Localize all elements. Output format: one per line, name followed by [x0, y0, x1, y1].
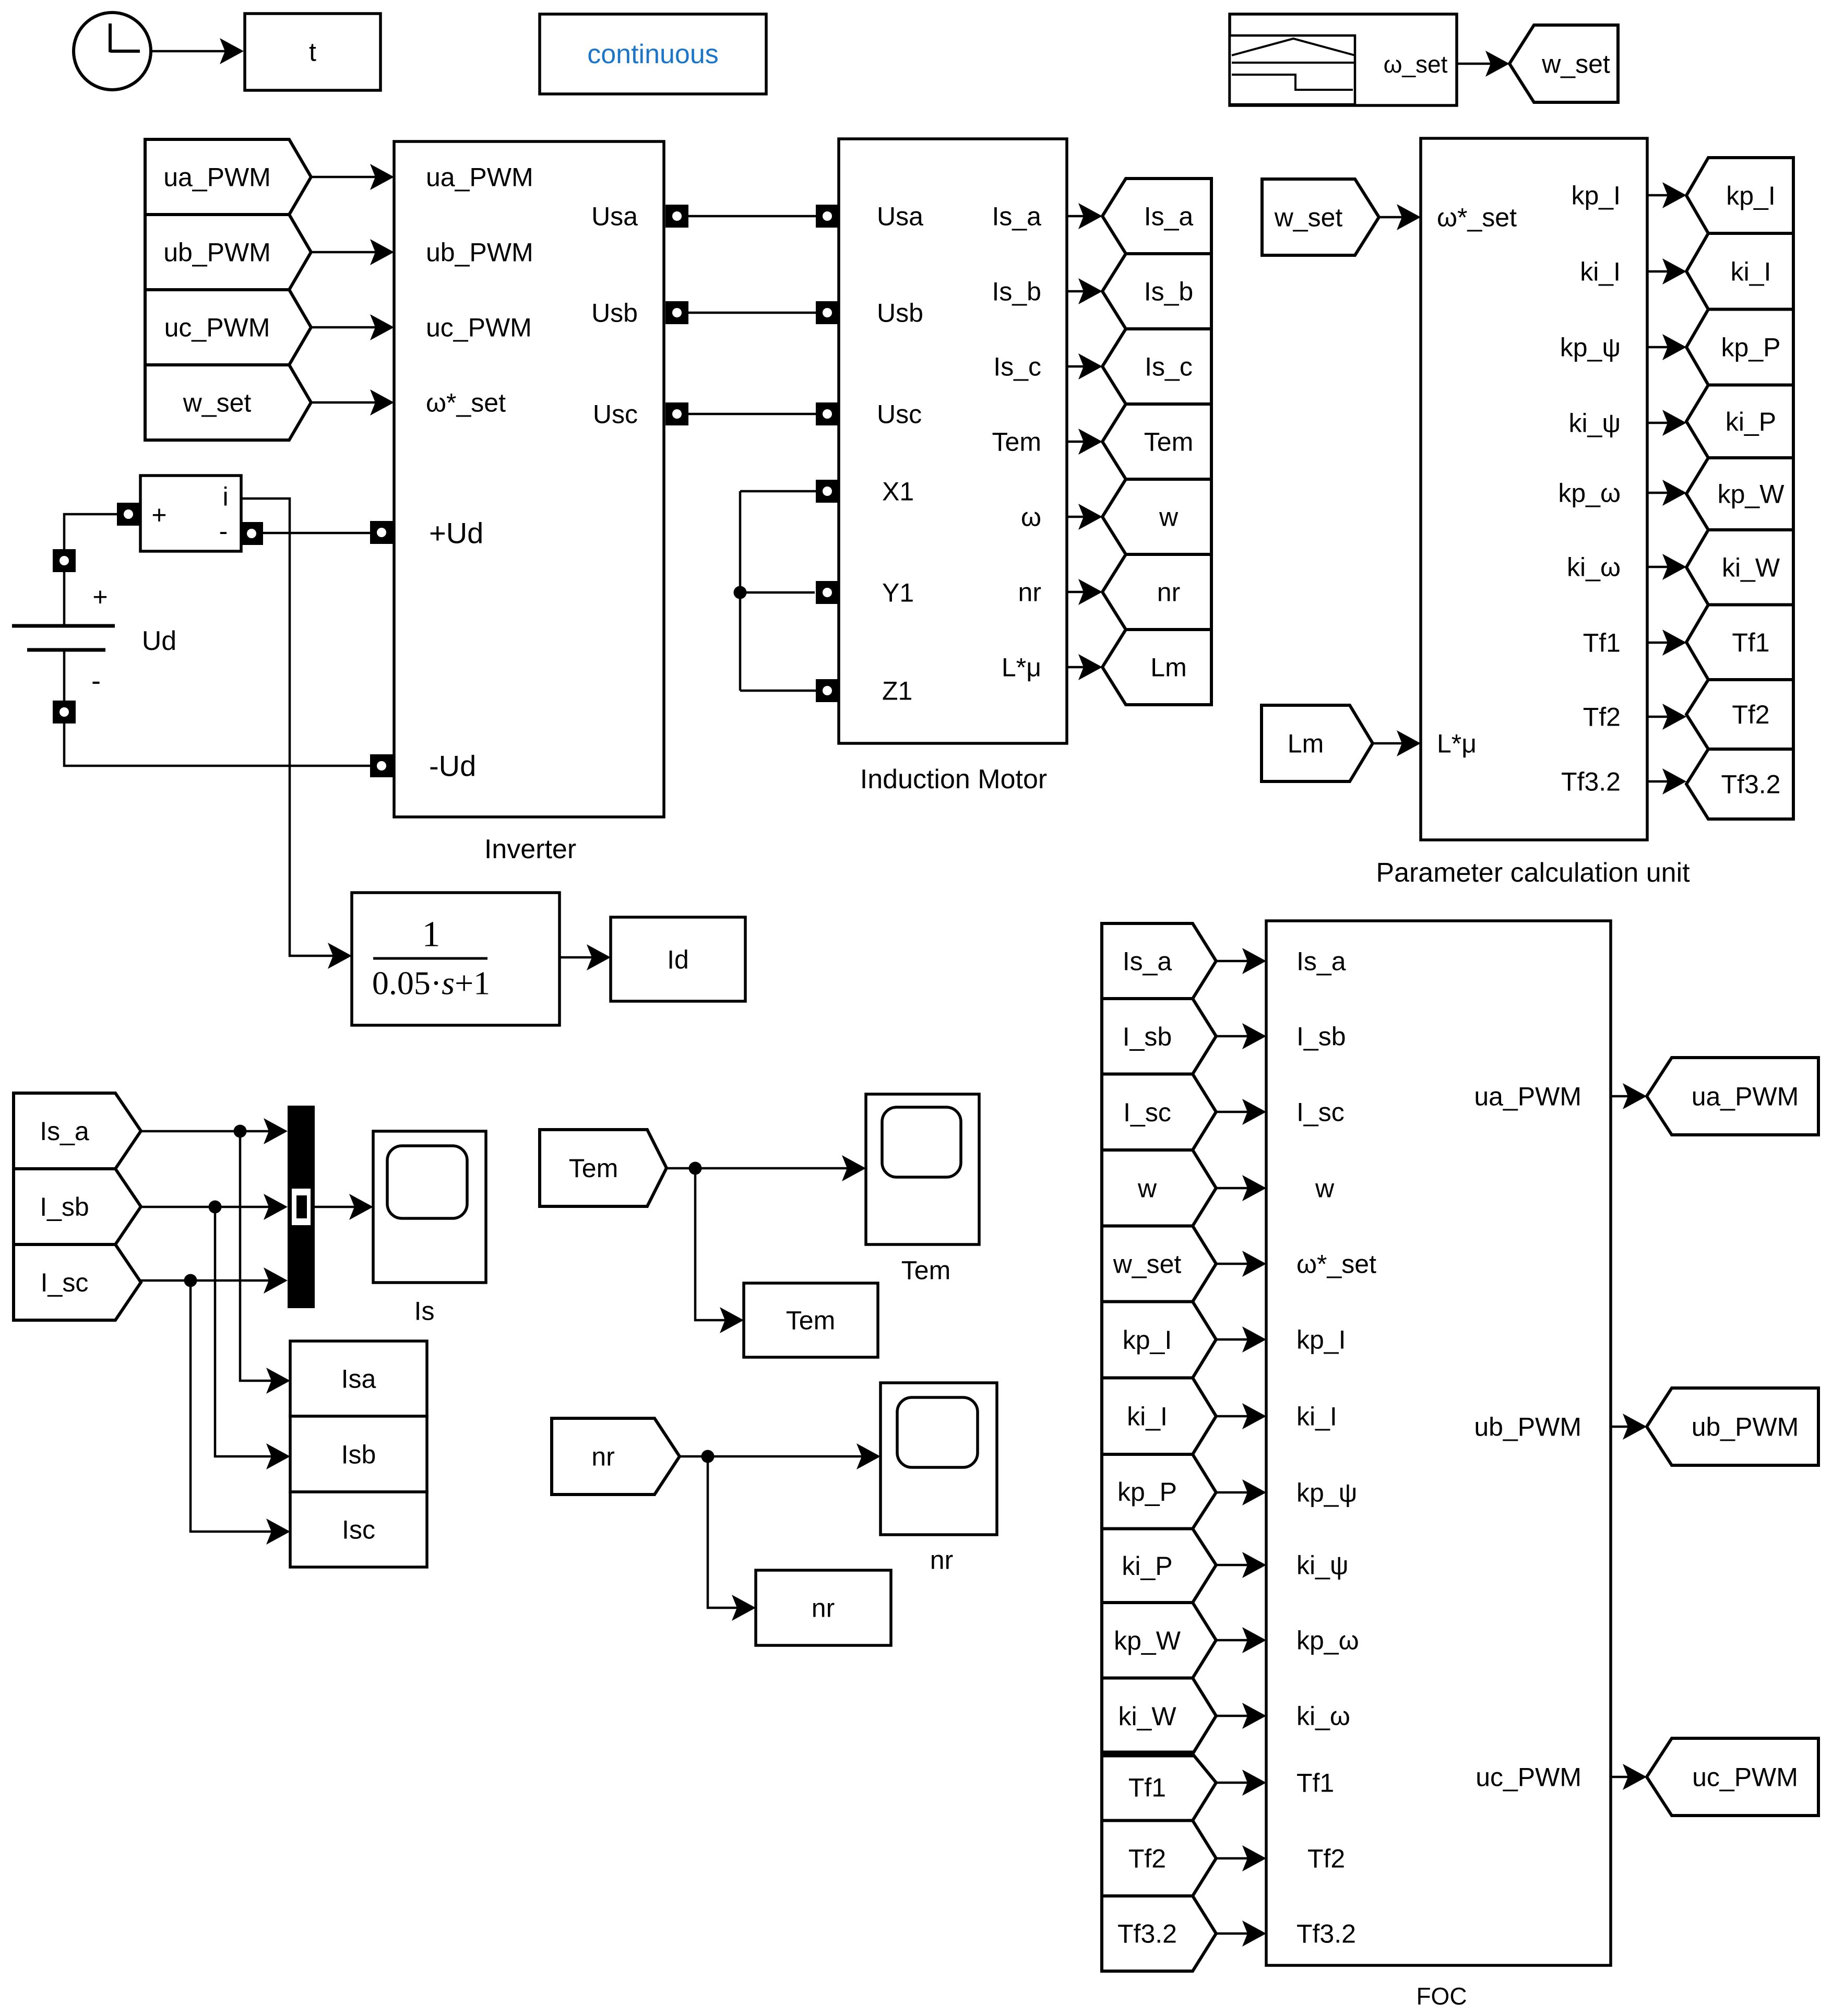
svg-text:kp_ω: kp_ω [1296, 1626, 1359, 1655]
svg-text:Tem: Tem [992, 428, 1041, 457]
svg-text:ki_ψ: ki_ψ [1296, 1551, 1349, 1580]
svg-text:ua_PWM: ua_PWM [426, 163, 533, 192]
svg-text:ub_PWM: ub_PWM [163, 238, 271, 267]
svg-text:Tf3.2: Tf3.2 [1296, 1919, 1356, 1949]
svg-text:Y1: Y1 [882, 578, 914, 608]
svg-text:I_sb: I_sb [1123, 1022, 1172, 1051]
svg-text:Tem: Tem [569, 1154, 618, 1183]
svg-text:kp_ω: kp_ω [1558, 479, 1621, 508]
svg-text:t: t [309, 38, 316, 67]
svg-text:ki_I: ki_I [1731, 257, 1771, 286]
svg-text:ub_PWM: ub_PWM [426, 238, 533, 267]
svg-text:w_set: w_set [1274, 203, 1343, 232]
svg-text:ua_PWM: ua_PWM [1692, 1082, 1799, 1111]
svg-text:Is_c: Is_c [993, 352, 1041, 382]
svg-text:I_sb: I_sb [40, 1192, 89, 1222]
svg-text:Is_b: Is_b [992, 277, 1041, 306]
svg-text:Tf1: Tf1 [1128, 1773, 1166, 1802]
svg-text:+: + [151, 501, 166, 530]
svg-text:nr: nr [930, 1546, 953, 1575]
svg-text:kp_I: kp_I [1123, 1325, 1172, 1355]
svg-text:Tf2: Tf2 [1307, 1844, 1345, 1873]
svg-text:X1: X1 [882, 477, 914, 506]
svg-text:ω*_set: ω*_set [426, 388, 506, 418]
svg-text:kp_W: kp_W [1718, 480, 1785, 509]
svg-text:Is_b: Is_b [1144, 277, 1194, 306]
svg-text:Tf1: Tf1 [1732, 628, 1769, 657]
svg-text:FOC: FOC [1416, 1983, 1467, 2010]
svg-text:Ud: Ud [142, 626, 176, 656]
svg-text:ki_I: ki_I [1296, 1402, 1337, 1431]
svg-text:ub_PWM: ub_PWM [1474, 1413, 1581, 1442]
svg-text:Lm: Lm [1150, 653, 1186, 682]
svg-text:Id: Id [667, 945, 689, 975]
svg-text:ω*_set: ω*_set [1437, 203, 1517, 232]
svg-text:w: w [1159, 503, 1179, 532]
svg-text:ki_P: ki_P [1726, 407, 1776, 436]
svg-text:nr: nr [591, 1442, 614, 1472]
svg-text:Isc: Isc [342, 1515, 375, 1545]
svg-text:I_sc: I_sc [1296, 1098, 1345, 1127]
svg-text:-: - [91, 665, 101, 696]
svg-text:Is: Is [414, 1297, 435, 1326]
svg-text:Tf1: Tf1 [1583, 628, 1621, 658]
svg-text:Isb: Isb [341, 1440, 376, 1469]
svg-text:Is_a: Is_a [992, 202, 1041, 231]
svg-text:kp_ψ: kp_ψ [1560, 333, 1621, 362]
svg-text:Parameter calculation unit: Parameter calculation unit [1376, 858, 1690, 888]
svg-text:ki_ψ: ki_ψ [1568, 409, 1621, 438]
svg-text:Usc: Usc [593, 400, 638, 429]
svg-text:Tem: Tem [1144, 428, 1193, 457]
svg-text:ki_P: ki_P [1122, 1551, 1172, 1581]
svg-text:w_set: w_set [1113, 1250, 1182, 1279]
svg-text:I_sb: I_sb [1296, 1022, 1346, 1051]
svg-text:kp_ψ: kp_ψ [1296, 1478, 1357, 1508]
svg-text:I_sc: I_sc [41, 1268, 89, 1297]
svg-text:Is_a: Is_a [1144, 202, 1194, 231]
svg-text:+Ud: +Ud [429, 517, 483, 550]
svg-text:ki_ω: ki_ω [1296, 1702, 1350, 1731]
svg-text:Usc: Usc [877, 400, 922, 429]
svg-text:kp_I: kp_I [1726, 181, 1776, 210]
svg-text:Tem: Tem [786, 1306, 835, 1335]
svg-text:Tf2: Tf2 [1583, 703, 1621, 732]
svg-text:Is_a: Is_a [1123, 947, 1172, 976]
svg-text:nr: nr [812, 1594, 835, 1623]
svg-text:Tem: Tem [901, 1256, 950, 1285]
svg-text:Tf2: Tf2 [1732, 700, 1769, 729]
svg-text:w_set: w_set [183, 388, 252, 418]
svg-text:kp_I: kp_I [1571, 181, 1621, 210]
svg-text:Isa: Isa [341, 1365, 376, 1394]
svg-text:0.05·s+1: 0.05·s+1 [372, 964, 490, 1001]
svg-text:kp_P: kp_P [1721, 333, 1781, 362]
svg-text:nr: nr [1157, 578, 1180, 607]
svg-text:Is_c: Is_c [1145, 352, 1193, 382]
svg-text:Is_a: Is_a [1296, 947, 1346, 976]
svg-text:Inverter: Inverter [484, 834, 576, 864]
svg-text:kp_P: kp_P [1117, 1477, 1177, 1507]
svg-text:L*μ: L*μ [1437, 729, 1477, 758]
svg-text:-Ud: -Ud [429, 750, 476, 782]
svg-text:w: w [1137, 1173, 1157, 1203]
svg-text:L*μ: L*μ [1002, 653, 1041, 682]
svg-text:w_set: w_set [1541, 50, 1610, 79]
svg-text:Z1: Z1 [882, 677, 912, 706]
svg-text:Usa: Usa [591, 202, 638, 231]
svg-text:Usb: Usb [877, 299, 923, 328]
svg-text:ki_ω: ki_ω [1567, 553, 1621, 582]
svg-text:Tf1: Tf1 [1296, 1769, 1334, 1798]
svg-text:nr: nr [1018, 578, 1041, 607]
svg-text:ua_PWM: ua_PWM [1474, 1082, 1581, 1111]
svg-text:-: - [219, 517, 228, 546]
svg-text:ki_I: ki_I [1580, 257, 1621, 287]
svg-text:Usa: Usa [877, 202, 923, 231]
svg-text:Induction Motor: Induction Motor [860, 764, 1047, 794]
svg-text:ki_W: ki_W [1118, 1702, 1176, 1731]
svg-text:Lm: Lm [1288, 729, 1324, 758]
svg-text:w: w [1315, 1174, 1335, 1203]
svg-text:kp_W: kp_W [1114, 1626, 1181, 1655]
svg-text:Tf3.2: Tf3.2 [1561, 767, 1621, 797]
svg-text:continuous: continuous [587, 39, 719, 69]
svg-text:kp_I: kp_I [1296, 1325, 1346, 1355]
svg-text:i: i [222, 482, 228, 512]
svg-text:ub_PWM: ub_PWM [1692, 1413, 1799, 1442]
svg-text:I_sc: I_sc [1123, 1098, 1171, 1127]
svg-text:uc_PWM: uc_PWM [1692, 1763, 1798, 1792]
svg-text:Tf3.2: Tf3.2 [1721, 770, 1781, 799]
svg-text:Tf2: Tf2 [1128, 1844, 1166, 1873]
svg-text:ω: ω [1021, 503, 1041, 532]
svg-text:1: 1 [422, 915, 441, 955]
svg-text:uc_PWM: uc_PWM [426, 313, 532, 342]
svg-text:uc_PWM: uc_PWM [1476, 1763, 1581, 1792]
svg-text:ki_I: ki_I [1127, 1402, 1168, 1431]
svg-text:uc_PWM: uc_PWM [164, 313, 270, 342]
svg-text:ω*_set: ω*_set [1296, 1250, 1376, 1279]
svg-text:ω_set: ω_set [1384, 51, 1448, 78]
svg-text:ua_PWM: ua_PWM [163, 163, 271, 192]
svg-text:ki_W: ki_W [1722, 553, 1780, 582]
svg-text:+: + [92, 583, 108, 612]
svg-text:Is_a: Is_a [40, 1117, 89, 1146]
svg-text:Tf3.2: Tf3.2 [1117, 1919, 1177, 1949]
svg-text:Usb: Usb [591, 299, 638, 328]
